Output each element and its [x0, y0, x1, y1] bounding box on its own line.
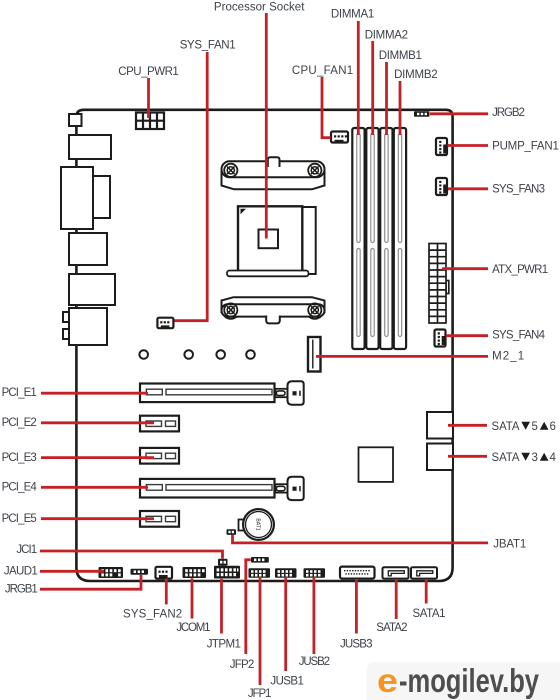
connector ATX_PWR1 (2x12 grid) — [429, 244, 449, 324]
PCI_E5 slot x1 — [140, 511, 179, 527]
wire JFP1 leader — [259, 578, 262, 685]
wire ATX_PWR1 leader — [442, 267, 488, 270]
connector JUSB2 — [304, 568, 326, 577]
mounting hole 2 — [184, 350, 193, 359]
wire DIMMA1 leader — [357, 21, 360, 135]
svg-text:ATX_PWR1: ATX_PWR1 — [492, 264, 548, 276]
watermark box — [367, 662, 560, 700]
CPU socket lever plate — [302, 207, 315, 274]
wire CPU_PWR1 leader — [147, 78, 150, 118]
wire JTPM1 leader — [220, 579, 223, 634]
bottom bracket screw right — [308, 303, 321, 316]
connector JRGB2 — [414, 111, 430, 116]
connector JUSB1 — [275, 568, 297, 577]
SATA 5/6 box — [427, 412, 453, 439]
svg-text:Processor Socket: Processor Socket — [214, 1, 305, 13]
connector SYS_FAN2 — [156, 567, 173, 579]
svg-text:5: 5 — [532, 421, 538, 433]
svg-text:DIMMB1: DIMMB1 — [379, 50, 422, 62]
wire M2_1 leader — [316, 355, 488, 358]
PCI_E1 slot x16 — [140, 384, 275, 403]
connector SYS_FAN4 — [435, 330, 446, 347]
connector JFP2 — [251, 557, 269, 563]
wire JRGB2 leader — [430, 112, 488, 115]
svg-text:JCI1: JCI1 — [16, 544, 37, 556]
SATA 3/4 box — [427, 444, 453, 471]
rear IO D-sub bump — [93, 176, 110, 218]
connector SATA1 — [411, 567, 437, 578]
wire SATA56 leader — [448, 424, 487, 427]
battery BAT1 — [243, 509, 274, 540]
PCI_E4 slot x16 — [140, 479, 275, 498]
wire SYS_FAN2 leader — [165, 579, 168, 605]
connector JFP1 — [249, 568, 271, 577]
CPU socket bottom bracket lip — [222, 297, 325, 312]
CPU socket top bracket lip — [222, 172, 325, 189]
wire JCOM1 leader — [191, 578, 194, 618]
mounting hole 3 — [216, 350, 225, 359]
wire JFP2 leader — [246, 560, 251, 654]
svg-text:PCI_E4: PCI_E4 — [2, 482, 38, 494]
PCI_E3 slot x1 — [140, 448, 179, 464]
svg-text:e: e — [377, 662, 398, 699]
mounting hole 1 — [139, 350, 148, 359]
wire DIMMB1 leader — [385, 62, 388, 135]
svg-text:PCI_E5: PCI_E5 — [2, 513, 37, 525]
CPU socket bottom bracket boss right — [306, 301, 324, 319]
wire JUSB1 leader — [284, 578, 287, 671]
CPU socket top bracket bar — [222, 161, 325, 177]
connector JRGB1 — [131, 569, 149, 575]
svg-text:SATA1: SATA1 — [413, 608, 446, 620]
top bracket screw left — [224, 164, 237, 177]
svg-text:SYS_FAN2: SYS_FAN2 — [123, 609, 182, 621]
chipset — [359, 447, 394, 482]
svg-text:SYS_FAN1: SYS_FAN1 — [180, 40, 236, 52]
bottom bracket screw left — [224, 303, 237, 316]
label SATA 3/4 with triangles — [492, 452, 557, 464]
connector CPU_FAN1 — [331, 132, 348, 143]
CPU socket top bracket boss right — [306, 162, 324, 180]
wire JAUD1 leader — [40, 570, 104, 573]
wire PCI_E5 leader — [41, 517, 154, 520]
CPU socket bottom bracket bar — [222, 304, 325, 316]
wire JCI1 leader — [40, 551, 223, 559]
PCI_E2 slot x1 — [140, 416, 179, 432]
connector PUMP_FAN1 — [436, 138, 447, 155]
svg-text:CPU_FAN1: CPU_FAN1 — [292, 65, 353, 77]
rear IO port box 2 — [69, 135, 111, 159]
mounting hole 4 — [246, 350, 255, 359]
connector JCI1 — [218, 559, 228, 566]
svg-text:SATA: SATA — [492, 452, 520, 464]
wire SYS_FAN3 leader — [448, 187, 488, 190]
wire SATA1 leader — [425, 579, 428, 604]
svg-text:SATA2: SATA2 — [376, 622, 407, 634]
battery holder tab — [239, 520, 245, 531]
rear IO port box 5 — [69, 274, 115, 305]
svg-text:CPU_PWR1: CPU_PWR1 — [118, 66, 179, 78]
rear IO audio jack tab 1 — [63, 312, 71, 322]
svg-text:JAUD1: JAUD1 — [4, 565, 38, 577]
socket center square — [259, 230, 279, 249]
rear IO D-sub body — [61, 167, 93, 229]
DIMM slot DIMMB1 — [380, 128, 392, 349]
PCI_E1 latch — [276, 381, 304, 404]
svg-text:JFP1: JFP1 — [248, 688, 272, 700]
svg-text:SATA: SATA — [492, 421, 520, 433]
svg-text:SYS_FAN3: SYS_FAN3 — [492, 184, 545, 196]
connector JTPM1 — [214, 566, 240, 579]
connector JCOM1 — [183, 567, 207, 578]
jumper JBAT1 — [227, 529, 237, 535]
svg-text:JUSB3: JUSB3 — [340, 638, 373, 650]
connector JAUD1 — [99, 567, 124, 578]
connector CPU_PWR1 (2x4 grid) — [136, 113, 164, 130]
wire SYS_FAN1 leader — [175, 52, 208, 321]
svg-text:JFP2: JFP2 — [230, 659, 255, 671]
CPU socket bottom bracket boss left — [222, 301, 240, 319]
svg-text:JCOM1: JCOM1 — [176, 622, 210, 634]
CPU socket body — [238, 206, 302, 271]
PCI_E4 latch — [276, 477, 304, 500]
svg-text:PCI_E2: PCI_E2 — [2, 417, 37, 429]
svg-text:JRGB1: JRGB1 — [5, 584, 38, 596]
svg-text:PCI_E1: PCI_E1 — [2, 387, 37, 399]
wire PCI_E2 leader — [41, 421, 154, 424]
wire JUSB2 leader — [312, 578, 315, 654]
wire JBAT1 leader — [233, 535, 489, 543]
socket bottom bar — [227, 271, 309, 277]
svg-text:JBAT1: JBAT1 — [493, 538, 526, 550]
CPU socket bottom bracket tab — [266, 316, 280, 324]
svg-text:-mogilev.by: -mogilev.by — [399, 662, 539, 699]
svg-text:DIMMA1: DIMMA1 — [331, 9, 374, 21]
wire SATA2 leader — [395, 579, 398, 619]
wire PUMP_FAN1 leader — [448, 144, 489, 147]
connector JUSB3 — [340, 567, 375, 579]
wire Processor Socket leader — [265, 13, 268, 239]
M2_1 slot — [308, 337, 321, 372]
svg-text:M2_1: M2_1 — [492, 351, 524, 363]
svg-text:BAT1: BAT1 — [255, 518, 261, 530]
wire JUSB3 leader — [355, 579, 358, 634]
DIMM slot DIMMA2 — [366, 128, 378, 349]
CPU socket top bracket tab — [268, 157, 280, 167]
svg-text:PUMP_FAN1: PUMP_FAN1 — [492, 140, 559, 152]
svg-text:6: 6 — [550, 421, 556, 433]
wire SATA34 leader — [448, 455, 487, 458]
svg-text:JRGB2: JRGB2 — [492, 107, 525, 119]
svg-text:4: 4 — [550, 452, 557, 464]
wire CPU_FAN1 leader — [322, 77, 331, 138]
wire DIMMA2 leader — [371, 41, 374, 135]
rear IO audio box — [69, 308, 107, 345]
svg-text:JUSB2: JUSB2 — [299, 656, 330, 668]
motherboard outline — [76, 110, 452, 581]
connector SATA2 — [383, 567, 409, 578]
wire JRGB1 leader — [40, 575, 141, 589]
rear IO port box 4 — [69, 233, 107, 265]
svg-text:DIMMA2: DIMMA2 — [365, 29, 408, 41]
svg-text:SYS_FAN4: SYS_FAN4 — [492, 330, 545, 342]
wire SYS_FAN4 leader — [446, 334, 488, 337]
svg-text:JUSB1: JUSB1 — [270, 675, 304, 687]
DIMM slot DIMMB2 — [394, 128, 406, 349]
wire DIMMB2 leader — [399, 81, 402, 135]
connector SYS_FAN1 — [157, 318, 173, 329]
socket pin1 triangle — [241, 209, 247, 215]
rear IO port small square — [69, 114, 82, 126]
svg-text:3: 3 — [532, 452, 538, 464]
label SATA 5/6 with triangles — [492, 421, 556, 433]
wire PCI_E3 leader — [41, 456, 154, 459]
wire PCI_E4 leader — [41, 486, 148, 489]
svg-text:DIMMB2: DIMMB2 — [394, 69, 438, 81]
svg-text:JTPM1: JTPM1 — [207, 639, 241, 651]
svg-text:PCI_E3: PCI_E3 — [2, 452, 37, 464]
rear IO audio jack tab 2 — [63, 329, 71, 339]
CPU socket top bracket boss left — [222, 162, 240, 180]
connector SYS_FAN3 — [436, 178, 447, 195]
top bracket screw right — [308, 164, 321, 177]
DIMM slot DIMMA1 — [352, 128, 364, 349]
wire PCI_E1 leader — [41, 392, 148, 395]
